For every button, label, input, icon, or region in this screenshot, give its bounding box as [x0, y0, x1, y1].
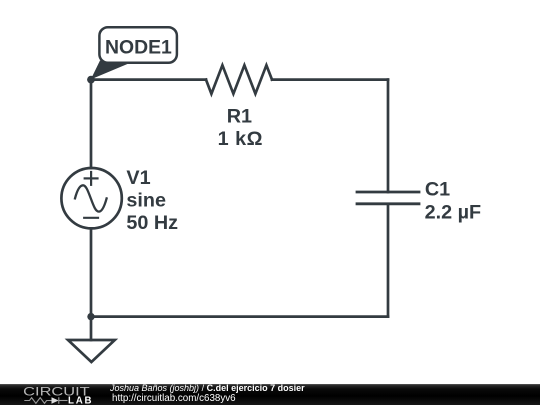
voltage source V1 — [61, 168, 121, 228]
svg-text:NODE1: NODE1 — [105, 37, 172, 59]
wire left rail lower — [90, 228, 93, 316]
wire ground stub — [90, 317, 93, 340]
wire top-left horizontal — [91, 78, 206, 81]
svg-text:V1: V1 — [126, 167, 150, 189]
svg-text:LAB: LAB — [68, 396, 93, 405]
svg-text:1 kΩ: 1 kΩ — [218, 128, 263, 150]
svg-text:50 Hz: 50 Hz — [126, 212, 178, 234]
footer credit line 2 — [112, 393, 236, 404]
node junction dot top (NODE1) — [87, 76, 95, 84]
resistor R1 — [206, 65, 272, 94]
ground — [68, 340, 115, 362]
CircuitLab logo — [0, 384, 100, 405]
svg-text:sine: sine — [126, 190, 166, 212]
wire right rail lower — [387, 204, 390, 317]
footer bar — [0, 384, 540, 405]
svg-text:C1: C1 — [425, 178, 450, 200]
svg-text:2.2 µF: 2.2 µF — [425, 201, 481, 223]
footer credit line 1 — [110, 383, 305, 393]
NODE1 callout bubble — [99, 27, 176, 63]
wire right rail upper — [387, 80, 390, 192]
wire left rail upper — [90, 80, 93, 168]
NODE1 callout tail — [91, 61, 134, 80]
wire bottom horizontal — [91, 315, 388, 318]
svg-text:R1: R1 — [227, 105, 252, 127]
wire top-right horizontal — [272, 78, 388, 81]
node junction dot bottom — [87, 313, 94, 320]
capacitor C1 — [357, 192, 419, 204]
